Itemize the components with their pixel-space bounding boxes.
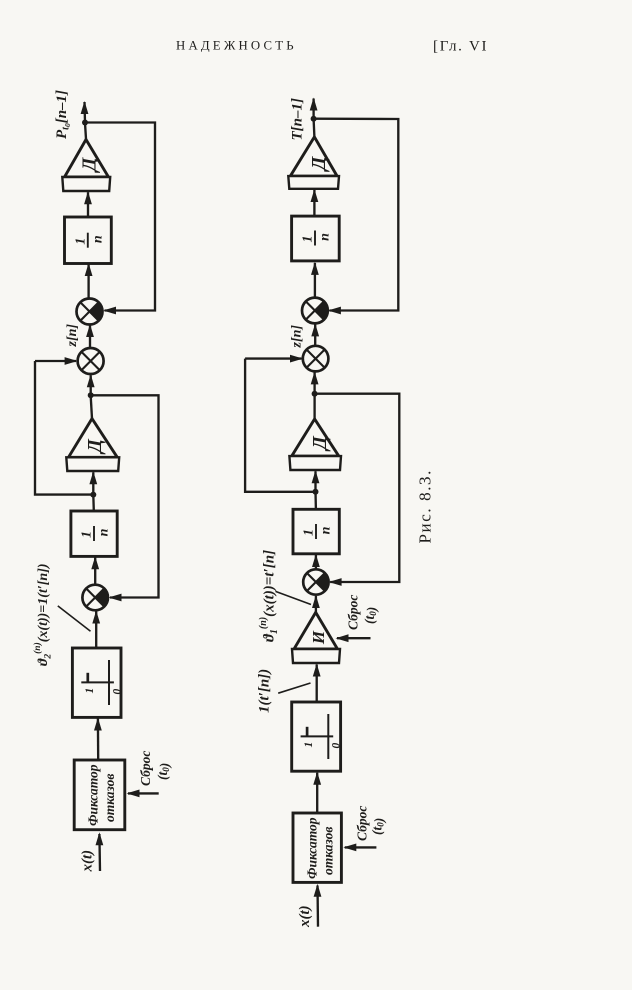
svg-text:НАДЕЖНОСТЬ: НАДЕЖНОСТЬ: [176, 39, 297, 53]
svg-text:Сброс: Сброс: [355, 806, 370, 841]
wire leader line theta2 label: [58, 606, 91, 631]
wire arrow adderR to multR1: [311, 323, 319, 346]
adder circle X (z[n]) L: [78, 348, 104, 374]
svg-text:Сброс: Сброс: [138, 751, 153, 786]
node C: below triangle2 R: [313, 489, 319, 495]
wire triangle2R apex to junction B: [313, 395, 315, 420]
wire Сброс input arrow into И: [336, 634, 371, 642]
wire arrow junctionC to Д-L2: [89, 471, 97, 494]
wire arrow multL2 to 1/n-L2: [91, 556, 99, 585]
svg-text:Д: Д: [84, 438, 106, 455]
logic И block R: [292, 612, 340, 663]
block 1/n L2: [71, 511, 117, 556]
svg-text:n: n: [318, 233, 333, 241]
step icon L: [81, 660, 123, 705]
wire feedforward loop C left run: [35, 361, 93, 495]
svg-text:1: 1: [73, 238, 88, 245]
wire node C to 1/n-L2: [92, 495, 95, 511]
node B: above triangle2 L: [88, 392, 94, 398]
amplifier Д block R1: [288, 137, 339, 189]
wire arrow И to multR2: [312, 595, 320, 612]
svg-text:1: 1: [301, 236, 316, 243]
svg-text:x(t): x(t): [297, 905, 313, 928]
svg-text:Фиксатор: Фиксатор: [86, 764, 101, 826]
node: output junction right: [311, 116, 317, 122]
block Фиксатор отказов R: [293, 813, 341, 882]
svg-text:Сброс: Сброс: [346, 595, 361, 630]
node B: above triangle2 R: [312, 391, 318, 397]
svg-text:[Гл. VI: [Гл. VI: [433, 39, 488, 55]
block 1/n R1: [292, 216, 340, 261]
wire arrow multR2 to 1/n-R2: [312, 554, 320, 569]
step icon R: [301, 714, 343, 759]
svg-text:1: 1: [302, 529, 317, 536]
wire arrow 1/n-L1 to Д-L1: [84, 191, 92, 217]
wire arrow multL1 to 1/n-L1: [85, 263, 93, 299]
svg-text:И: И: [309, 630, 328, 645]
block threshold (1/0) L: [72, 648, 121, 717]
block threshold (1/0) R: [292, 702, 341, 771]
amplifier Д block L2: [66, 419, 119, 471]
svg-text:z[n]: z[n]: [290, 325, 305, 349]
svg-text:x(t): x(t): [80, 850, 96, 873]
label 1/n L1: [73, 233, 105, 248]
label 1/n R2: [302, 524, 334, 539]
wire arrow fixatorR to thresholdR: [313, 772, 321, 813]
wire leader line 1(t') label: [278, 683, 310, 693]
label 1/n R1: [301, 231, 333, 246]
wire arrow junctionB to adder L: [87, 374, 95, 395]
wire feedforward loop C right, into adder: [245, 355, 303, 363]
wire triangle2L apex to junction B: [91, 396, 92, 419]
wire feedforward loop C left, into adder: [35, 357, 78, 365]
wire triangle1L apex to junction: [85, 123, 86, 139]
svg-text:Д: Д: [308, 155, 330, 172]
wire output arrow right, to T label: [310, 98, 318, 119]
wire arrow 1/n-R1 to Д-R1: [311, 189, 319, 216]
adder circle X (z[n]) R: [303, 346, 329, 372]
wire feedback loop A right: [314, 119, 399, 311]
wire leader line theta1 label: [276, 591, 312, 604]
wire arrow junctionC to Д-R2: [312, 470, 320, 492]
block 1/n R2: [293, 509, 339, 554]
multiplier (X, filled sector) L2: [82, 585, 108, 611]
svg-text:1: 1: [84, 688, 96, 694]
svg-text:Рис. 8.3.: Рис. 8.3.: [416, 469, 435, 544]
block Фиксатор отказов L: [74, 760, 125, 830]
svg-text:n: n: [97, 528, 112, 536]
wire arrow junctionB to adder R: [311, 371, 319, 393]
svg-text:Pt0[n–1]: Pt0[n–1]: [54, 90, 72, 139]
wire arrow multR1 to 1/n-R1: [311, 262, 319, 298]
svg-text:Д: Д: [79, 156, 101, 173]
svg-text:отказов: отказов: [321, 827, 336, 875]
svg-text:1: 1: [80, 531, 95, 538]
node C: below triangle2 L: [90, 492, 96, 498]
svg-text:n: n: [319, 526, 334, 534]
wire feedback loop B left: [91, 395, 159, 597]
wire x(t) input arrow R: [314, 884, 322, 927]
node: output junction left: [82, 120, 88, 126]
svg-text:z[n]: z[n]: [65, 324, 80, 348]
wire Сброс input arrow into fixator R: [343, 844, 376, 852]
svg-text:отказов: отказов: [102, 774, 117, 822]
svg-text:n: n: [90, 235, 105, 243]
wire Сброс input arrow into fixator L: [127, 790, 159, 798]
wire triangle1R apex to junction: [312, 119, 315, 137]
wire x(t) input arrow L: [96, 832, 104, 871]
block 1/n L1: [65, 217, 112, 264]
wire output arrow left, to P label: [81, 101, 89, 123]
wire arrow thresholdL to multL2: [92, 611, 100, 649]
wire arrow fixatorL to thresholdL: [94, 718, 102, 761]
multiplier (X, filled sector) R2: [303, 569, 328, 594]
wire feedback loop A left: [85, 123, 155, 311]
svg-text:Д: Д: [309, 435, 331, 452]
wire arrow adderL to multL1: [86, 324, 94, 348]
svg-text:Фиксатор: Фиксатор: [305, 817, 320, 879]
wire feedback loop B right: [315, 394, 400, 582]
wire arrow thresholdR to И: [313, 664, 321, 703]
wire node C to 1/n-R2: [314, 492, 317, 510]
multiplier (X, filled sector) R1: [302, 298, 328, 324]
amplifier Д block R2: [289, 419, 341, 470]
multiplier (X, filled sector) L1: [77, 299, 103, 325]
svg-text:T[n–1]: T[n–1]: [290, 98, 306, 141]
label 1/n L2: [80, 526, 112, 541]
svg-text:0: 0: [331, 743, 343, 749]
svg-text:1: 1: [303, 742, 315, 748]
amplifier Д block L1: [62, 140, 110, 192]
svg-text:1(t′[n]): 1(t′[n]): [257, 669, 273, 713]
svg-text:0: 0: [111, 689, 123, 695]
wire feedforward loop C right run: [245, 359, 315, 492]
